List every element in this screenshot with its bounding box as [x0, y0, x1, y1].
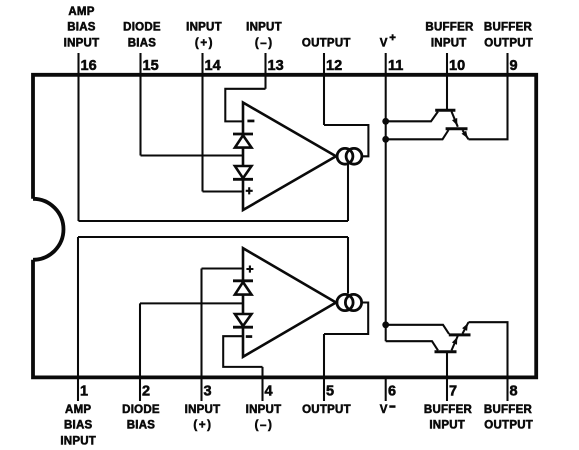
pin 8 lead (buffer output from Q4 emitter): [469, 322, 508, 401]
pin 7 lead (buffer input to Q3 base): [446, 352, 448, 401]
op-amp A2 (lower OTA triangle): [243, 248, 336, 357]
svg-text:8: 8: [510, 384, 518, 400]
svg-text:(–): (–): [255, 420, 274, 432]
svg-text:15: 15: [143, 58, 159, 74]
junction dot V+ to Q2 collector: [382, 136, 389, 143]
svg-text:INPUT: INPUT: [429, 420, 465, 432]
wire Q4 collector: [386, 325, 449, 334]
svg-text:1: 1: [80, 384, 88, 400]
pin 6 lead (V-): [385, 377, 387, 401]
svg-text:V: V: [380, 37, 388, 49]
wire Q2 collector: [386, 130, 449, 139]
svg-text:3: 3: [204, 384, 212, 400]
svg-text:INPUT: INPUT: [246, 404, 282, 416]
pin 14 lead: [201, 53, 203, 192]
wire pin4 to A2 inverting input: [223, 336, 262, 367]
svg-text:13: 13: [268, 58, 284, 74]
svg-text:V: V: [380, 404, 388, 416]
op-amp A2 inverting input marker: [246, 335, 252, 338]
svg-text:INPUT: INPUT: [186, 22, 222, 34]
svg-text:7: 7: [449, 384, 457, 400]
wire pin13 to A1 inverting input: [225, 89, 265, 122]
svg-text:9: 9: [510, 58, 518, 74]
diode D4 (lower pair, cathode down): [233, 314, 253, 327]
pin 1 lead: [77, 237, 79, 401]
op-amp A1 (upper OTA triangle): [243, 103, 336, 211]
wire rail to Q3 collector: [386, 341, 438, 350]
svg-text:BUFFER: BUFFER: [425, 22, 474, 34]
svg-text:DIODE: DIODE: [123, 22, 161, 34]
wire bias riser to A1 current source: [347, 165, 349, 222]
transistor Q4 (lower buffer darlington output): [449, 322, 471, 335]
wire pin1 bias horizontal: [78, 236, 348, 238]
pin 15 lead: [139, 53, 141, 156]
diode D1 (upper pair, cathode up): [233, 134, 253, 148]
svg-text:OUTPUT: OUTPUT: [302, 404, 351, 416]
svg-text:BUFFER: BUFFER: [484, 404, 533, 416]
svg-text:DIODE: DIODE: [122, 404, 160, 416]
package outline (16-pin DIP body): [33, 75, 536, 378]
pin 9 lead (buffer output from Q2 emitter): [469, 53, 508, 139]
pin 13 lead: [264, 53, 266, 89]
wire pin16 bias horizontal: [79, 220, 349, 222]
op-amp A2 output current source symbol: [337, 294, 353, 310]
svg-text:(+): (+): [195, 37, 214, 49]
svg-text:BIAS: BIAS: [128, 37, 157, 49]
transistor Q3 (lower buffer darlington input): [435, 336, 458, 352]
svg-text:14: 14: [205, 58, 221, 74]
wire pin12 to A1 output: [324, 125, 368, 156]
svg-text:(+): (+): [193, 420, 212, 432]
pin 10 lead (buffer input to Q1 base): [446, 53, 448, 110]
diode D2 (upper pair, cathode down): [233, 166, 253, 179]
svg-text:OUTPUT: OUTPUT: [484, 420, 533, 432]
svg-text:OUTPUT: OUTPUT: [302, 37, 351, 49]
package notch (index semicircle): [33, 199, 63, 260]
svg-text:BIAS: BIAS: [64, 420, 93, 432]
svg-text:INPUT: INPUT: [246, 22, 282, 34]
svg-text:INPUT: INPUT: [185, 404, 221, 416]
pin 16 lead: [77, 53, 79, 221]
op-amp A2 non-inverting input marker: [246, 266, 253, 273]
transistor Q2 (upper buffer darlington output): [446, 129, 469, 140]
svg-text:BIAS: BIAS: [127, 420, 156, 432]
svg-text:BIAS: BIAS: [67, 22, 96, 34]
transistor Q1 (upper buffer darlington input): [435, 110, 458, 127]
pin 2 lead: [139, 303, 141, 401]
junction dot rail to Q4 collector: [382, 321, 389, 328]
svg-text:2: 2: [142, 384, 150, 400]
svg-text:11: 11: [388, 58, 403, 74]
wire pin2 to diode midpoint: [140, 302, 243, 304]
svg-text:4: 4: [265, 384, 273, 400]
pin 4 lead: [261, 367, 263, 401]
diode D3 (lower pair, cathode up): [233, 281, 253, 295]
op-amp A1 non-inverting input marker: [246, 187, 253, 194]
svg-text:INPUT: INPUT: [64, 37, 100, 49]
wire pin15 to diode midpoint: [141, 154, 244, 156]
wire bias riser to A2 current source: [347, 237, 349, 293]
op-amp A1 output current source symbol: [337, 148, 353, 164]
wire pin5 to A2 output: [324, 303, 368, 335]
svg-text:OUTPUT: OUTPUT: [484, 37, 533, 49]
svg-text:INPUT: INPUT: [431, 37, 467, 49]
op-amp A1 inverting input marker: [247, 120, 254, 123]
pin 12 lead: [323, 53, 325, 125]
svg-text:16: 16: [81, 58, 97, 74]
svg-text:AMP: AMP: [68, 6, 94, 18]
svg-text:AMP: AMP: [65, 404, 91, 416]
wire Q1 collector: [386, 112, 438, 122]
pin 5 lead: [323, 334, 325, 401]
svg-text:INPUT: INPUT: [60, 436, 96, 448]
junction dot V+ to Q1 collector: [382, 118, 389, 125]
svg-text:5: 5: [326, 384, 334, 400]
svg-text:12: 12: [326, 58, 342, 74]
svg-text:10: 10: [449, 58, 465, 74]
pin 11 lead (V+ rail): [385, 53, 387, 341]
wire pin14 to A1 non-inverting input: [203, 190, 244, 192]
svg-text:(–): (–): [255, 37, 274, 49]
svg-text:BUFFER: BUFFER: [484, 22, 533, 34]
svg-text:BUFFER: BUFFER: [424, 404, 473, 416]
pin 3 lead: [200, 269, 202, 402]
svg-text:6: 6: [388, 384, 396, 400]
wire pin3 to A2 non-inverting input: [202, 267, 244, 269]
